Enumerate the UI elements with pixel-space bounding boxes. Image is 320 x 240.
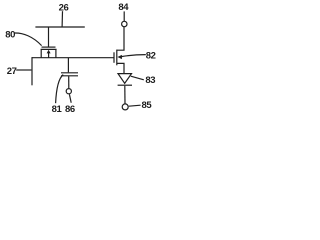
source/drain leg left of Q80 (40, 49, 42, 57)
substrate arrow of Q80 (48, 53, 50, 58)
svg-text:80: 80 (5, 29, 15, 40)
cathode bar of D83 (118, 84, 132, 86)
anode triangle of D83 (118, 74, 132, 84)
label 86 (65, 104, 75, 115)
label 82 with arrowhead (121, 55, 145, 57)
label 26 (59, 2, 69, 13)
capacitor C81 (61, 58, 78, 89)
wire: leader of label 26 (61, 11, 63, 26)
gate bar of Q80 (42, 46, 56, 48)
wire: leader of label 86 (69, 94, 71, 103)
wire: from C81 bottom plate to terminal 86 (68, 76, 70, 88)
terminal 85 (122, 104, 128, 110)
label 27 (7, 66, 17, 77)
wire: leader of label 27 (16, 69, 31, 71)
svg-text:27: 27 (7, 66, 17, 77)
channel bar of Q80 (41, 48, 57, 50)
wire: data line 27 (31, 57, 33, 85)
svg-text:84: 84 (118, 2, 129, 13)
wire: from D83 cathode to terminal 85 (124, 86, 126, 104)
diode D83 (light emitting element) (118, 74, 132, 104)
label 80 (5, 29, 15, 40)
wire: node row from data line to gate of Q82 (32, 57, 114, 59)
C81 bottom plate (61, 75, 78, 77)
label 84 (118, 2, 129, 13)
source/drain leg right of Q80 (55, 49, 57, 57)
svg-text:83: 83 (145, 75, 155, 86)
channel bar of Q82 (116, 50, 118, 66)
wire: leader of label 81 (56, 75, 64, 104)
wire: leader of label 80 (14, 33, 41, 46)
svg-text:81: 81 (52, 104, 63, 115)
label 83 (131, 76, 144, 80)
label 81 (52, 104, 63, 115)
C81 top plate (61, 72, 78, 74)
transistor Q80 (switching TFT) (41, 27, 57, 58)
svg-text:82: 82 (146, 50, 156, 61)
label 85 (142, 100, 153, 111)
wire: leader of label 84 (123, 11, 125, 21)
terminal 84 (122, 21, 127, 26)
svg-text:85: 85 (142, 100, 153, 111)
gate bar of Q82 (113, 52, 115, 63)
svg-text:86: 86 (65, 104, 75, 115)
drain leg top of Q82 (117, 27, 124, 50)
source leg bottom of Q82 (117, 63, 124, 73)
wire: leader of label 85 (129, 105, 141, 106)
wire: scan line 26 rail (35, 26, 84, 28)
terminal 86 (66, 89, 71, 94)
wire: gate of Q80 from rail (48, 27, 50, 47)
svg-text:26: 26 (59, 2, 69, 13)
transistor Q82 (driving TFT) (114, 27, 124, 73)
wire: from node row to C81 top plate (67, 58, 69, 73)
